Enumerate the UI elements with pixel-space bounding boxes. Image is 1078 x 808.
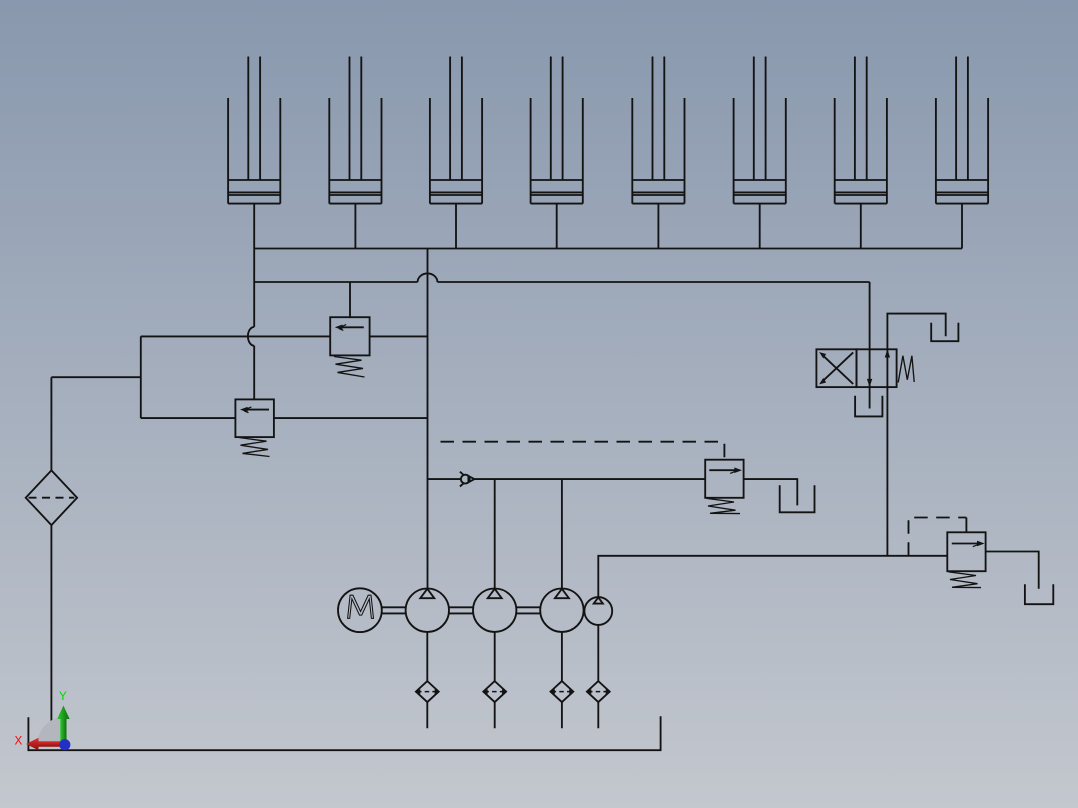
pump P1 bbox=[406, 589, 449, 632]
drain filter D4 bbox=[587, 681, 610, 702]
pump P3 bbox=[540, 589, 583, 632]
spring of SV1 bbox=[898, 356, 914, 383]
wire pump3 drain bbox=[561, 632, 563, 728]
wire V2 left port bbox=[141, 417, 236, 419]
svg-text:Y: Y bbox=[59, 689, 67, 704]
motor M1 bbox=[338, 588, 382, 632]
wire SV1 bottom drain bbox=[869, 387, 871, 408]
filter F1 bbox=[26, 470, 77, 525]
wire upper branch with hop bbox=[254, 273, 869, 349]
svg-text:X: X bbox=[15, 734, 23, 749]
shaft motor to P1 bbox=[382, 607, 406, 613]
wire pump3 riser bbox=[561, 479, 563, 588]
valve V1 bbox=[330, 317, 369, 355]
wire V2 right port bbox=[274, 417, 428, 419]
pilot dashed line to valve V3 bbox=[441, 442, 725, 461]
wire left vertical link bbox=[140, 336, 142, 418]
wire V1 top port bbox=[349, 282, 351, 317]
drain filter D1 bbox=[416, 681, 439, 702]
valve V4 bbox=[947, 532, 985, 571]
wire filter outlet bbox=[50, 525, 52, 727]
shaft P1 to P2 bbox=[449, 607, 473, 613]
shaft P2 to P3 bbox=[516, 607, 540, 613]
cylinder CYL7 bbox=[835, 57, 887, 204]
pilot dashed line to valve V4 bbox=[909, 518, 967, 556]
wire pump1 drain bbox=[426, 632, 428, 728]
wire cyl1 drop to valve V2 with hop bbox=[248, 249, 254, 400]
pump P2 bbox=[473, 589, 516, 632]
cylinder CYL4 bbox=[531, 57, 583, 204]
solenoid valve SV1 bbox=[816, 349, 896, 387]
wire V1 left port bbox=[141, 335, 330, 337]
origin triad bbox=[15, 689, 71, 750]
wire pump header line bbox=[428, 478, 706, 480]
wire cylinder drops bbox=[254, 204, 962, 249]
drain filter D2 bbox=[483, 681, 506, 702]
cylinder CYL5 bbox=[632, 57, 684, 204]
wire V3 drain to tank bbox=[744, 479, 798, 505]
cylinder CYL2 bbox=[329, 57, 381, 204]
reservoir tank bbox=[28, 716, 660, 750]
wire pump2 riser bbox=[494, 479, 496, 588]
wire V4 drain to tank bbox=[986, 552, 1039, 589]
wire pump4 drain bbox=[597, 625, 599, 728]
Y axis green arrow bbox=[60, 718, 66, 746]
pump P4 bbox=[584, 597, 612, 625]
wire manifold bbox=[254, 248, 962, 250]
wire pump4 outlet bbox=[598, 556, 947, 597]
gray quarter disc bbox=[38, 717, 65, 744]
wire filter feed bbox=[51, 377, 140, 470]
spring of V3 bbox=[707, 498, 741, 513]
cylinder CYL6 bbox=[734, 57, 786, 204]
wire V1 right port bbox=[370, 335, 428, 337]
tank T4 bbox=[855, 396, 882, 417]
Z axis blue dot bbox=[59, 739, 70, 750]
check valve CV1 bbox=[460, 472, 475, 487]
tank T1 bbox=[780, 485, 815, 512]
wire solenoid valve down link bbox=[886, 387, 888, 556]
tank T2 bbox=[1025, 584, 1053, 604]
wire trunk vertical bbox=[427, 249, 429, 589]
spring of V4 bbox=[949, 572, 982, 588]
wire SV1 top return bbox=[887, 314, 945, 350]
cylinder CYL3 bbox=[430, 57, 482, 204]
tank T3 bbox=[931, 323, 958, 341]
drain filter D3 bbox=[551, 681, 574, 702]
spring of V2 bbox=[239, 438, 270, 457]
cylinder CYL8 bbox=[936, 57, 988, 204]
valve V3 bbox=[705, 460, 743, 498]
wire pump2 drain bbox=[494, 632, 496, 728]
cylinder CYL1 bbox=[228, 57, 280, 204]
valve V2 bbox=[235, 399, 274, 437]
X axis red arrow bbox=[36, 741, 66, 747]
spring of V1 bbox=[334, 357, 365, 378]
